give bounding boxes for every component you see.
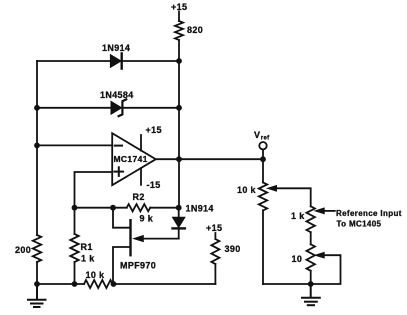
svg-text:1N914: 1N914 [186, 204, 214, 214]
wire: R2 left node run [75, 207, 127, 209]
wire: Vref node down to 10k pot [262, 159, 264, 182]
svg-text:10: 10 [292, 254, 303, 264]
svg-text:1N914: 1N914 [102, 43, 130, 53]
node: R2 right / diode anode / rail [176, 205, 182, 211]
wire: left rail top to diode 1N914 anode [37, 60, 110, 62]
wire: rail zener node to op-amp output node [178, 108, 180, 159]
node: zener cathode / rail [176, 105, 182, 111]
svg-text:1 k: 1 k [291, 211, 305, 221]
op-amp -15 supply lead [140, 168, 142, 185]
svg-text:10 k: 10 k [86, 270, 106, 280]
svg-text:V: V [254, 130, 260, 140]
wire: rail output node to R2 right node [178, 159, 180, 208]
node: drain / R2 wire [110, 205, 116, 211]
node: op-amp output / rail [176, 156, 182, 162]
wire: inverting input from left rail [37, 144, 112, 146]
wire: 10 wiper loop to bottom node [311, 255, 341, 284]
wire: +15 to 390 top [214, 233, 216, 239]
resistor R2 9k [127, 204, 151, 211]
wire: diode cathode down to gate wire [178, 230, 180, 239]
svg-text:To MC1405: To MC1405 [337, 220, 382, 229]
wire: 10k pot bottom down to bottom wire [262, 210, 264, 284]
resistor R1 1k [70, 234, 78, 262]
zener diode 1N4584 (pointing right) [111, 101, 122, 114]
ground (right) [302, 284, 320, 305]
wire: left rail, D1 corner down to zener node [36, 61, 38, 108]
transistor Q1 MPF970 drain lead [113, 208, 131, 228]
svg-text:1 k: 1 k [81, 254, 95, 264]
resistor 820 [175, 21, 183, 40]
diode 1N914 (top, pointing right) [110, 55, 121, 68]
wire: zener cathode to rail [124, 107, 180, 109]
wire: ground node to R1 node [37, 283, 84, 285]
wire: R2 right to rail node [150, 207, 179, 209]
svg-text:200: 200 [15, 245, 31, 255]
node: divider ground [308, 281, 314, 287]
terminal Vref [259, 142, 266, 149]
wire: left rail, inverting node down to resistor 200 [36, 145, 38, 235]
wire: bottom rail of divider [263, 283, 311, 285]
wire: 200 bottom to ground node [36, 262, 38, 284]
svg-text:MC1741: MC1741 [114, 154, 148, 164]
svg-text:820: 820 [187, 25, 203, 35]
wire: left rail, zener node to inverting-input node [36, 108, 38, 146]
node: R2 left / + input / R1 top [72, 205, 78, 211]
wire: R2 right node down to diode anode [178, 208, 180, 218]
svg-text:MPF970: MPF970 [120, 261, 156, 271]
wire: rail D1 node to zener node [178, 61, 180, 108]
wire: R1 bottom to bottom rail [74, 262, 76, 284]
potentiometer 10k wiper arrow [268, 186, 277, 192]
wire: 1k wiper to reference output [324, 210, 335, 212]
potentiometer 10 [307, 244, 315, 270]
ground (left) [28, 284, 46, 307]
transistor Q1 MPF970 gate arrow [134, 236, 144, 242]
node: left ground [34, 281, 40, 287]
wire: R2 left node down to R1 top [74, 208, 76, 234]
svg-text:10 k: 10 k [237, 185, 257, 195]
svg-text:390: 390 [225, 244, 241, 254]
diode 1N914 (vertical, pointing down) [173, 217, 185, 227]
svg-text:R2: R2 [133, 192, 145, 202]
wire: 1k bottom to 10 pot top [310, 232, 312, 244]
svg-text:1N4584: 1N4584 [100, 90, 134, 100]
wire: 10k to 390 bottom corner [113, 283, 216, 285]
wire: gate to diode bottom [142, 238, 179, 240]
node: Vref / output [260, 156, 266, 162]
node: zener anode / left rail [34, 105, 40, 111]
svg-text:R1: R1 [81, 242, 93, 252]
node: R1 bottom / bottom rail [72, 281, 78, 287]
potentiometer 1k wiper arrow [315, 208, 324, 214]
transistor Q1 MPF970 source lead [113, 247, 131, 284]
potentiometer 10k [259, 183, 267, 211]
potentiometer 10 wiper arrow [315, 252, 324, 258]
svg-text:-15: -15 [147, 180, 161, 190]
wire: 820 bottom to node at D1 cathode [178, 40, 180, 61]
wire: non-inverting input to R2 left node [75, 172, 113, 208]
wire: op-amp output to Vref column [156, 158, 263, 160]
wire: left rail to zener 1N4584 anode [37, 107, 111, 109]
node: 820 / D1 cathode / rail [176, 58, 182, 64]
wire: 10 pot bottom to ground node [310, 271, 312, 284]
resistor 390 [211, 239, 219, 264]
svg-text:9 k: 9 k [140, 214, 154, 224]
wire: diode 1N914 cathode to rail [123, 60, 179, 62]
svg-text:ref: ref [261, 136, 270, 142]
resistor 10k (bottom) [84, 280, 113, 288]
svg-text:Reference Input: Reference Input [336, 209, 402, 218]
node: inverting input / left rail [34, 143, 40, 149]
op-amp +15 supply lead [140, 135, 142, 151]
svg-text:+15: +15 [171, 2, 187, 12]
wire: 390 bottom to bottom rail [214, 264, 216, 284]
resistor 200 [33, 235, 41, 262]
svg-text:+15: +15 [206, 223, 222, 233]
potentiometer 1k [307, 206, 315, 232]
wire: 10k wiper to 1k pot top [276, 188, 311, 206]
svg-text:+15: +15 [146, 125, 162, 135]
node: source / bottom rail [111, 281, 117, 287]
transistor Q1 MPF970 channel [129, 220, 131, 255]
wire: +15 to 820 top [178, 12, 180, 22]
op-amp U1 MC1741 [112, 133, 156, 185]
